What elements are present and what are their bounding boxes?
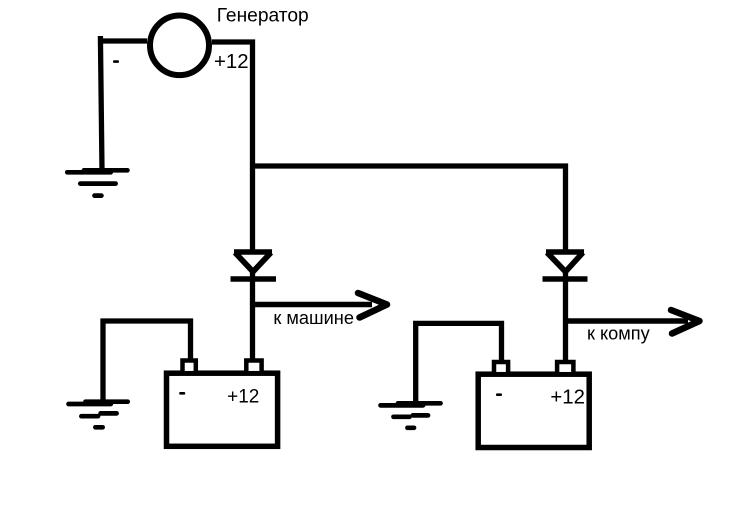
arrow к компу <box>563 310 700 334</box>
arrow к машине <box>250 293 387 318</box>
battery B1 <box>167 361 278 447</box>
wire generator minus to ground <box>100 36 147 170</box>
terminal B1 positive <box>246 361 261 374</box>
label - (generator negative) <box>113 60 119 63</box>
diode D1 <box>231 252 277 279</box>
terminal B2 negative <box>494 362 508 374</box>
svg-text:к компу: к компу <box>587 324 651 344</box>
wire D1 to battery B1 positive <box>250 272 255 361</box>
label - (battery B1) <box>179 392 185 395</box>
terminal B2 positive <box>557 362 573 374</box>
svg-text:к машине: к машине <box>273 308 354 328</box>
label - (battery B2) <box>496 393 502 396</box>
wire D2 to battery B2 positive <box>563 272 568 362</box>
diode D2 <box>543 252 588 279</box>
svg-text:Генератор: Генератор <box>217 5 309 26</box>
svg-text:+12: +12 <box>214 51 249 73</box>
wire battery B2 negative to ground <box>416 323 502 401</box>
ground GND2 <box>69 402 128 428</box>
svg-text:+12: +12 <box>550 386 585 408</box>
svg-text:+12: +12 <box>227 386 259 407</box>
generator G1 <box>150 16 209 76</box>
battery B2 <box>478 362 589 448</box>
terminal B1 negative <box>183 361 196 374</box>
wire junction to right diode D2 <box>253 166 566 250</box>
ground GND3 <box>381 403 441 428</box>
wire battery B1 negative to ground <box>103 321 191 400</box>
wire generator +12 down to diode D1 <box>212 42 253 250</box>
ground GND1 <box>67 170 127 195</box>
